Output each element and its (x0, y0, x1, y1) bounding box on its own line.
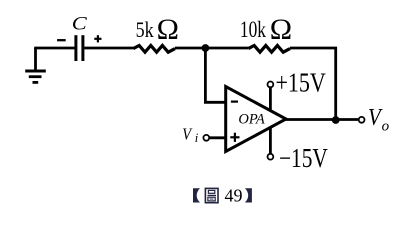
caption right bracket (245, 188, 252, 202)
svg-text:OPA: OPA (238, 112, 264, 128)
wire junction A down to inverting input (205, 48, 225, 102)
svg-text:Ω: Ω (157, 13, 179, 46)
wire ground to capacitor (34, 47, 74, 50)
capacitor plus sign (94, 35, 101, 42)
svg-text:i: i (195, 131, 199, 145)
wire Vi terminal to non-inverting input (209, 136, 226, 139)
wire -15V supply (269, 127, 272, 154)
op-amp non-inverting plus sign (230, 133, 239, 142)
svg-text:o: o (382, 119, 390, 135)
op-amp U1 triangle (226, 87, 286, 152)
wire +15V supply (269, 87, 272, 111)
wire op-amp output to Vo terminal (284, 118, 359, 121)
svg-text:−15V: −15V (279, 144, 328, 174)
junction node A (202, 44, 210, 52)
svg-text:49: 49 (225, 185, 243, 205)
junction output node (332, 116, 340, 124)
svg-text:Ω: Ω (270, 13, 292, 46)
wire 5k to 10k (175, 47, 248, 50)
svg-text:C: C (72, 12, 88, 34)
terminal +15V open circle (268, 82, 274, 88)
svg-text:+15V: +15V (276, 68, 326, 98)
svg-text:5k: 5k (136, 18, 155, 42)
capacitor C1 (76, 35, 83, 61)
ground (25, 48, 46, 82)
wire 10k to feedback corner down to output node (290, 48, 336, 120)
terminal -15V open circle (268, 154, 274, 160)
caption left bracket (193, 188, 200, 202)
terminal Vo open circle (359, 117, 365, 123)
wire capacitor to 5k resistor (84, 47, 133, 50)
resistor R1 5k ohm zigzag (133, 46, 175, 53)
capacitor minus sign (57, 39, 66, 41)
resistor R2 10k ohm zigzag (248, 46, 290, 53)
op-amp inverting minus sign (231, 100, 238, 102)
caption CJK character tu (figure) (205, 188, 218, 202)
svg-text:10k: 10k (240, 18, 267, 43)
terminal Vi open circle (203, 135, 209, 141)
